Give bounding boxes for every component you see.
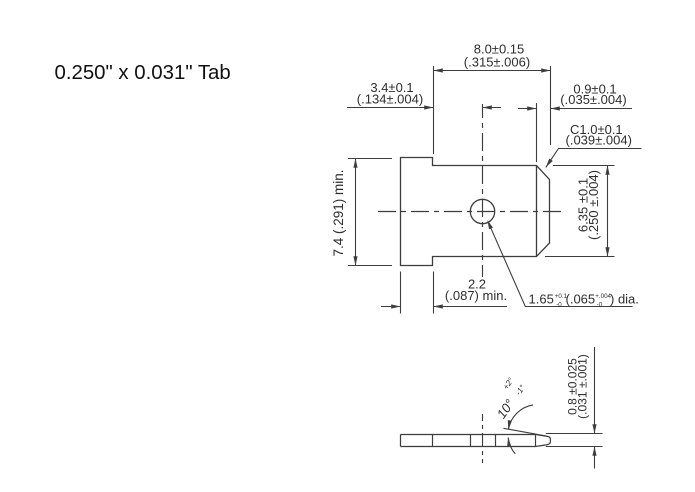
side view tip xyxy=(536,435,551,447)
svg-text:7.4 (.291) min.: 7.4 (.291) min. xyxy=(331,169,346,256)
svg-text:+2°: +2° xyxy=(501,375,516,391)
horizontal centerline xyxy=(378,211,566,213)
dim 8.0 extension line right xyxy=(550,66,552,145)
dim 0.9 right arrow leader xyxy=(551,108,633,110)
10 deg construction line xyxy=(504,428,547,436)
dim 2.2 right arrow leader xyxy=(434,306,508,308)
dim 0.9 left arrow xyxy=(518,108,537,110)
dim 0.8 dimension line upper xyxy=(594,347,596,434)
dim 0.8 dimension line lower xyxy=(594,447,596,469)
svg-text:-1°: -1° xyxy=(514,383,528,397)
svg-text:(.134±.004): (.134±.004) xyxy=(357,91,423,106)
svg-text:(.250 ±.004): (.250 ±.004) xyxy=(586,170,601,240)
svg-text:(.031 ±.001): (.031 ±.001) xyxy=(576,354,590,419)
svg-text:(.035±.004): (.035±.004) xyxy=(560,92,626,107)
dim 6.35 extension lines xyxy=(553,165,615,167)
dim 6.35 dimension line xyxy=(607,166,609,257)
side view bar outline xyxy=(401,435,536,447)
dim 0.9 extension line xyxy=(536,103,538,162)
svg-text:1.65+0.1-0(.065+.004-0) dia.: 1.65+0.1-0(.065+.004-0) dia. xyxy=(529,292,639,309)
angle 10deg label (rotated) xyxy=(486,375,528,421)
dim 3.4 leader with arrow xyxy=(347,107,434,109)
svg-text:0.250" x 0.031" Tab: 0.250" x 0.031" Tab xyxy=(55,62,231,84)
angle dim arc upper xyxy=(508,405,533,430)
svg-text:(.315±.006): (.315±.006) xyxy=(464,55,530,70)
hole xyxy=(470,199,494,223)
dim 7.4 extension lines xyxy=(348,158,392,160)
side view centerline xyxy=(482,414,484,463)
dim 8.0 extension line left xyxy=(433,66,435,154)
svg-text:(.087) min.: (.087) min. xyxy=(445,288,507,303)
angle dim arc lower xyxy=(508,437,515,454)
chamfer bend line xyxy=(536,166,538,257)
chamfer C1.0 leader xyxy=(546,149,642,168)
dim 0.8 extension lines xyxy=(546,433,603,435)
dim 8.0 dimension line xyxy=(434,70,551,72)
side view section lines xyxy=(432,435,434,447)
dim 2.2 left arrow xyxy=(381,306,401,308)
svg-text:(.039±.004): (.039±.004) xyxy=(566,133,632,148)
hole dia leader xyxy=(489,223,633,307)
vertical centerline xyxy=(482,104,484,277)
dim 3.4 right arrow xyxy=(483,107,502,109)
tab outline (plan view) xyxy=(401,158,550,266)
dim 7.4 dimension line xyxy=(355,159,357,266)
dim 2.2 extension lines xyxy=(400,272,402,314)
